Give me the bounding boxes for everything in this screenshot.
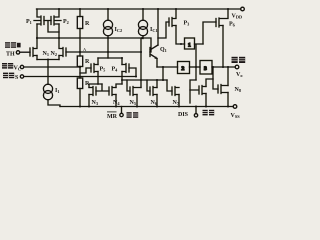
gate box 1 bbox=[185, 38, 195, 49]
wire N3 N4 gate tie bbox=[96, 84, 109, 91]
wire N3 source bbox=[88, 95, 90, 107]
wire pair sources to IC1 bbox=[98, 57, 121, 59]
svg-text:R: R bbox=[85, 59, 90, 65]
node y38 IC2 bbox=[107, 37, 109, 39]
svg-text:TH: TH bbox=[6, 52, 15, 58]
wire N3 drain bbox=[89, 84, 102, 88]
wire P4 source up bbox=[121, 58, 123, 65]
node rail N5 bbox=[136, 106, 138, 108]
wire emitter to gate2 bbox=[157, 66, 178, 68]
node control bbox=[79, 66, 81, 68]
wire P3 drain to gate 1 bbox=[176, 26, 185, 45]
svg-text:P4: P4 bbox=[112, 67, 119, 73]
wire Q1 emitter down bbox=[156, 59, 158, 68]
label CJK yuzhi (threshold) bbox=[5, 42, 10, 48]
wire P2 drain bbox=[58, 24, 60, 38]
node rail P6 bbox=[227, 8, 229, 10]
wire R1 to node A bbox=[79, 29, 81, 57]
wire R3 bottom bbox=[79, 89, 81, 107]
node rail N4 bbox=[115, 106, 117, 108]
overline MR bbox=[107, 111, 117, 114]
label CJK chufa (trigger) bbox=[3, 73, 8, 79]
svg-text:P6: P6 bbox=[229, 22, 236, 28]
gate box 2 bbox=[178, 62, 190, 74]
wire control bbox=[24, 66, 80, 68]
wire P5 source up bbox=[97, 58, 99, 65]
transistor N6 bbox=[150, 87, 157, 96]
svg-text:P1: P1 bbox=[26, 19, 32, 25]
node y52 x141 bbox=[140, 51, 142, 53]
wire node A net y52 bbox=[66, 51, 141, 53]
terminal S trigger bbox=[20, 75, 23, 78]
svg-text:3: 3 bbox=[204, 66, 207, 72]
wire N7 source bbox=[178, 95, 180, 107]
wire IC1 bottom bbox=[142, 36, 144, 39]
wire comparator out y38 bbox=[37, 38, 151, 88]
transistor P5 bbox=[91, 64, 98, 73]
transistor P4 bbox=[122, 64, 129, 73]
node rail R1 bbox=[79, 8, 81, 10]
node rail chain bbox=[79, 106, 81, 108]
terminal VDD bbox=[241, 7, 245, 11]
wire N6 source bbox=[156, 95, 158, 107]
node P2 drain bbox=[58, 37, 60, 39]
svg-text:Q1: Q1 bbox=[160, 47, 167, 53]
node rail N7 bbox=[178, 106, 180, 108]
node y80 x141 bbox=[140, 79, 142, 81]
svg-text:VSS: VSS bbox=[231, 113, 241, 119]
wire P4 gate to trigger bbox=[129, 68, 136, 77]
svg-text:Vo: Vo bbox=[236, 72, 243, 78]
CJK texture slits bbox=[2, 44, 245, 116]
node y80 N6 bbox=[156, 79, 158, 81]
node rail N8 bbox=[227, 106, 229, 108]
wire VSS bottom rail bbox=[60, 106, 233, 108]
node A bbox=[79, 51, 81, 53]
wire IC1 top bbox=[142, 9, 144, 20]
wire P5 drain down bbox=[97, 72, 99, 85]
wire N6 drain bbox=[156, 80, 158, 88]
wire N1 source bbox=[36, 56, 38, 60]
wire IC2 top bbox=[107, 9, 109, 20]
svg-text:P3: P3 bbox=[184, 21, 190, 27]
wire gate1 out bbox=[195, 44, 204, 80]
node rail IC2 bbox=[107, 8, 109, 10]
svg-text:DIS: DIS bbox=[178, 112, 189, 118]
svg-text:N4: N4 bbox=[113, 100, 120, 106]
transistor P3 bbox=[169, 9, 176, 27]
svg-text:N3: N3 bbox=[92, 100, 99, 106]
transistor N2 bbox=[59, 38, 66, 57]
wire N9 drain bbox=[206, 79, 213, 87]
node tail bbox=[47, 59, 49, 61]
wire N9 source bbox=[205, 94, 207, 107]
svg-text:N1: N1 bbox=[43, 51, 50, 57]
transistor P2 bbox=[51, 9, 61, 25]
svg-text:IC1: IC1 bbox=[150, 27, 158, 33]
transistor Q1 bbox=[150, 45, 158, 59]
svg-text:I1: I1 bbox=[55, 88, 60, 94]
wire N4 drain bbox=[116, 84, 122, 88]
node out x223 bbox=[222, 66, 224, 68]
resistor R2 bbox=[77, 56, 82, 67]
svg-text:N5: N5 bbox=[130, 100, 137, 106]
wire P4 drain down bbox=[121, 72, 123, 85]
svg-text:MR: MR bbox=[107, 114, 118, 120]
wire IC2 bottom bbox=[107, 36, 109, 58]
label CJK fuwei (reset) bbox=[127, 112, 132, 118]
arrow Q1 emitter bbox=[155, 57, 157, 59]
svg-text:N7: N7 bbox=[173, 100, 180, 106]
node rail IC1 bbox=[142, 8, 144, 10]
wire output branch down bbox=[213, 67, 218, 89]
wire TH input bbox=[20, 51, 30, 53]
node IC2 join bbox=[107, 51, 109, 53]
transistor P6 bbox=[216, 9, 228, 27]
wire P6 gate bbox=[203, 22, 216, 44]
wire N7 gate riser bbox=[167, 80, 172, 91]
wire N5 source bbox=[136, 95, 138, 107]
wire diff pair join bbox=[37, 60, 59, 85]
node rail N9 bbox=[205, 106, 207, 108]
svg-text:R: R bbox=[85, 81, 90, 87]
wire gate2 to gate3 bbox=[190, 66, 201, 68]
transistor N7 bbox=[172, 87, 179, 96]
CJK glyph blocks (threshold / control / trigger / reset / discharge / output) bbox=[2, 42, 245, 118]
wire Q1 collector bbox=[157, 9, 159, 45]
current source IC2 bbox=[103, 20, 112, 29]
svg-text:N2: N2 bbox=[51, 51, 58, 57]
wire R1 top bbox=[79, 9, 81, 17]
wire N8 drain bbox=[227, 67, 229, 86]
wire N6 gate riser bbox=[147, 80, 150, 91]
wire output net bbox=[212, 66, 235, 68]
node rail N6 bbox=[156, 106, 158, 108]
transistor N4 bbox=[109, 87, 116, 96]
wire R2 to R3 bbox=[79, 67, 81, 79]
wire P3 gate bbox=[158, 22, 169, 38]
transistor P1 bbox=[34, 9, 44, 25]
wire latch to N9 gate bbox=[190, 80, 196, 103]
node trigger P4 bbox=[135, 76, 137, 78]
node rail DIS bbox=[195, 106, 197, 108]
terminal MR bbox=[120, 113, 123, 116]
transistor N3 bbox=[89, 87, 96, 96]
wire P5 line joins N3 bbox=[97, 83, 99, 85]
node rail N3 bbox=[88, 106, 90, 108]
wire I1 bottom bbox=[48, 100, 60, 107]
label CJK fangdian (discharge) bbox=[203, 110, 208, 116]
transistor N8 bbox=[218, 85, 228, 94]
node P4 y58 bbox=[121, 57, 123, 59]
svg-text:VC: VC bbox=[14, 66, 21, 72]
svg-text:P5: P5 bbox=[100, 67, 106, 73]
wire MR stub bbox=[121, 107, 123, 114]
svg-text:2: 2 bbox=[182, 66, 185, 72]
node box1 in bbox=[180, 43, 182, 45]
node rail Q1 bbox=[157, 8, 159, 10]
node y38 IC1 bbox=[141, 37, 143, 39]
svg-text:VDD: VDD bbox=[232, 14, 243, 20]
terminal VSS bbox=[233, 105, 237, 109]
terminal output bbox=[235, 65, 239, 69]
node P1 drain bbox=[36, 37, 38, 39]
wire x163 riser bbox=[162, 67, 164, 80]
transistor N9 discharge bbox=[190, 86, 206, 95]
svg-text:N6: N6 bbox=[151, 100, 158, 106]
wire DIS stub bbox=[195, 107, 197, 114]
label CJK shuchu (output) bbox=[232, 57, 238, 63]
wire gate tie P1 P2 bbox=[44, 21, 59, 33]
node rail P3 bbox=[175, 8, 177, 10]
node rail P2 bbox=[58, 8, 60, 10]
node y79 P4 bbox=[121, 79, 123, 81]
svg-text:N8: N8 bbox=[235, 87, 242, 93]
terminal Vc control bbox=[20, 65, 23, 68]
svg-text:P2: P2 bbox=[63, 19, 69, 25]
resistor R3 bbox=[77, 78, 82, 89]
transistor N5 bbox=[130, 87, 141, 96]
node y79 x163 bbox=[162, 79, 164, 81]
svg-text:1: 1 bbox=[188, 42, 191, 48]
gate box 3 bbox=[200, 61, 212, 75]
svg-text:R: R bbox=[85, 21, 90, 27]
wire trigger bbox=[24, 76, 136, 78]
current source IC1 bbox=[138, 20, 147, 29]
terminal DIS bbox=[194, 114, 197, 117]
current source I1 bbox=[43, 84, 52, 93]
wire mirror out y79 bbox=[122, 79, 167, 81]
wire N5 gate riser bbox=[127, 80, 130, 91]
node out x229 bbox=[227, 66, 229, 68]
wire VDD top rail bbox=[37, 8, 241, 10]
node emitter x163 bbox=[162, 66, 164, 68]
node out x212 bbox=[212, 66, 214, 68]
wire N4 source bbox=[115, 95, 117, 107]
wire P1 drain bbox=[36, 24, 38, 38]
wire P6 drain bbox=[222, 26, 224, 68]
wire N2 source bbox=[58, 56, 60, 60]
transistor N1 bbox=[30, 38, 37, 57]
terminal TH bbox=[16, 51, 19, 54]
wire P5 gate to node B bbox=[80, 68, 91, 73]
label CJK kongzhi (control) bbox=[2, 63, 7, 69]
svg-text:IC2: IC2 bbox=[115, 27, 123, 33]
wire N8 source bbox=[227, 93, 229, 107]
node latch mid bbox=[195, 66, 197, 68]
resistor R1 bbox=[77, 17, 82, 29]
